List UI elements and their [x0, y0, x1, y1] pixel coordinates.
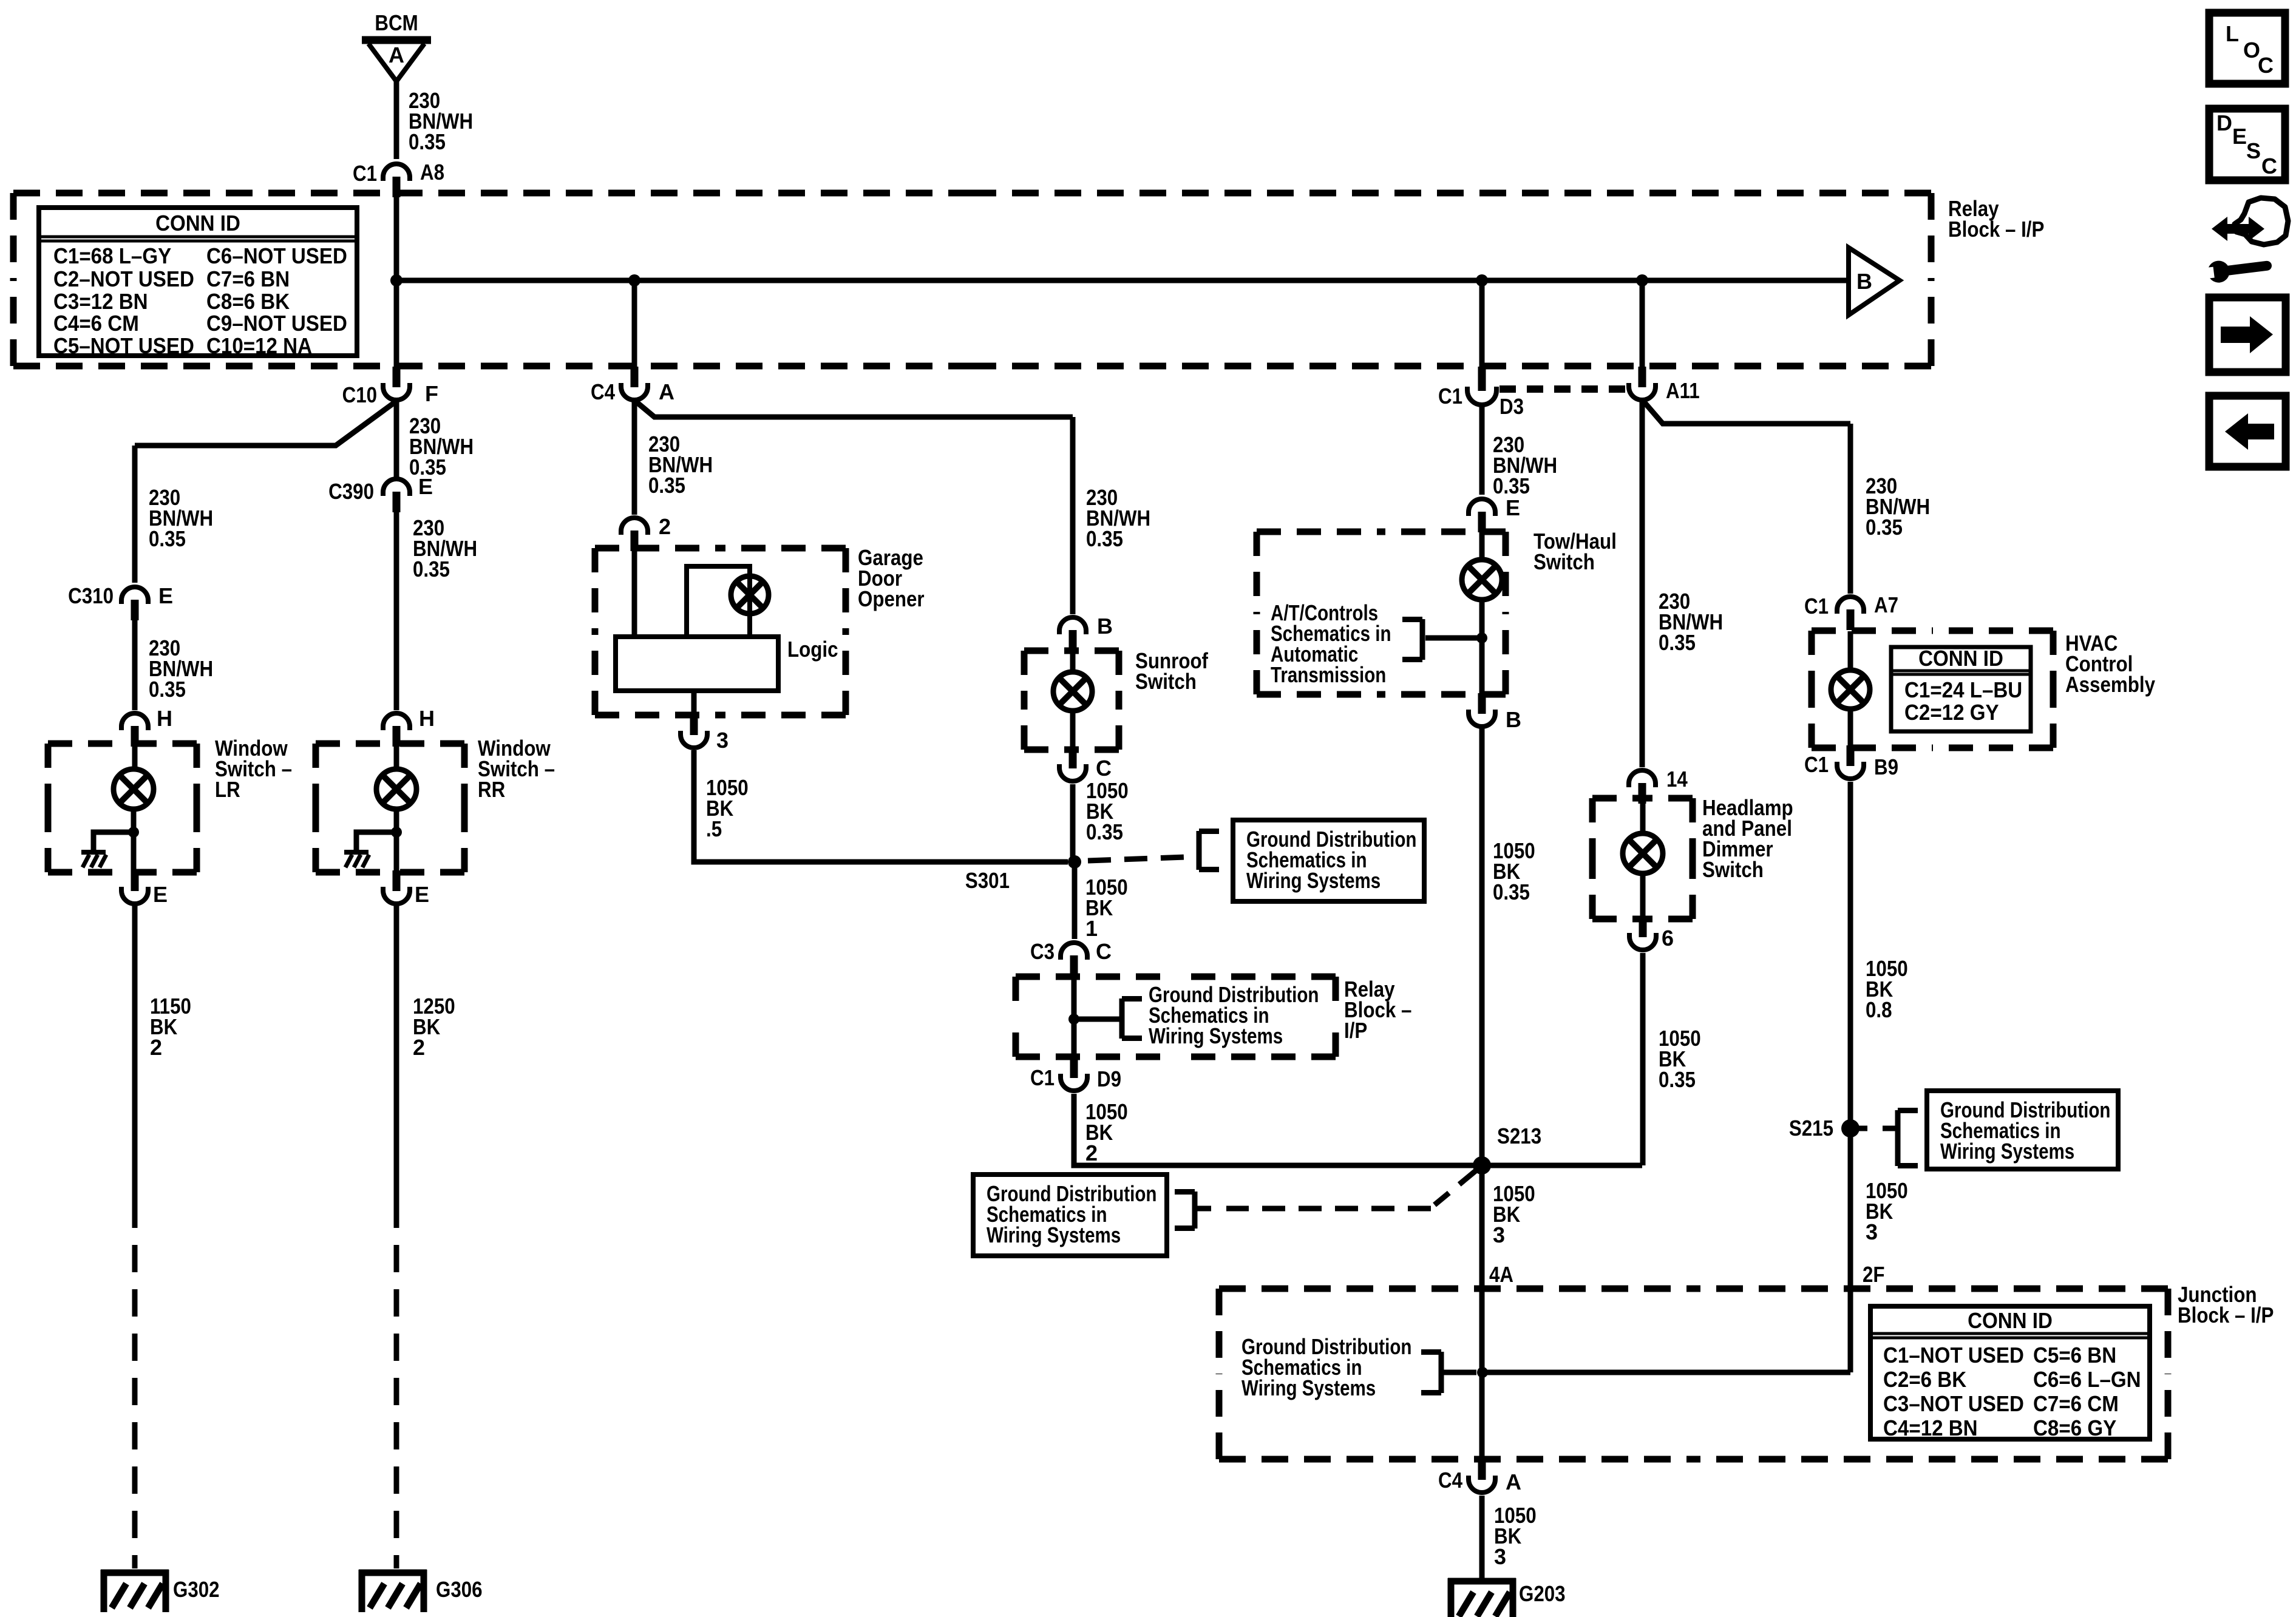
svg-text:.5: .5: [706, 816, 722, 841]
connector C1 D3: [1467, 367, 1496, 405]
svg-text:C7=6 CM: C7=6 CM: [2033, 1391, 2119, 1416]
bracket stub (S213 callout): [1195, 1206, 1211, 1212]
svg-text:C5–NOT USED: C5–NOT USED: [53, 333, 194, 358]
wire into LR bulb: [132, 744, 138, 770]
svg-text:C: C: [2258, 53, 2274, 78]
splice S301: [1068, 855, 1081, 869]
svg-text:0.35: 0.35: [1659, 1067, 1696, 1092]
svg-text:E: E: [418, 474, 433, 499]
indicator bulb (sunroof switch): [1053, 672, 1092, 711]
svg-text:C3=12 BN: C3=12 BN: [53, 289, 148, 314]
wire bus to A11: [1640, 280, 1645, 369]
svg-text:Wiring Systems: Wiring Systems: [1149, 1023, 1283, 1048]
svg-text:S215: S215: [1789, 1116, 1833, 1141]
ground stub wire (RR): [356, 832, 396, 850]
wire label 230 BN/WH 0.35 (C390): [413, 515, 477, 581]
svg-text:C8=6 GY: C8=6 GY: [2033, 1415, 2116, 1440]
bracket at S301 callout: [1199, 831, 1219, 870]
svg-text:C: C: [1096, 939, 1112, 964]
connector pin 2 (garage door opener): [621, 518, 648, 551]
svg-text:S301: S301: [965, 868, 1010, 893]
wire label 230 BN/WH 0.35 (garage): [648, 432, 713, 498]
wire S213 to headlamp column: [1482, 1163, 1642, 1168]
connector C1 D9: [1061, 1057, 1087, 1091]
junction in RR switch: [391, 827, 402, 838]
wire C1 A8 into bus: [394, 193, 399, 280]
wire sunroof bulb to box edge: [1070, 711, 1076, 749]
wire label 230 BN/WH 0.35 (col1 lower): [149, 636, 213, 702]
connector C4 A: [621, 367, 648, 400]
wire down to sunroof switch: [1070, 417, 1076, 614]
svg-text:C10=12 NA: C10=12 NA: [206, 333, 312, 358]
chassis ground (window switch LR): [81, 852, 106, 867]
svg-text:C2–NOT USED: C2–NOT USED: [53, 266, 194, 291]
label Garage Door Opener: [858, 545, 925, 611]
svg-text:3: 3: [1493, 1222, 1505, 1247]
svg-text:C1=24 L–BU: C1=24 L–BU: [1904, 677, 2022, 702]
wire label 1050 BK 3 (2F): [1866, 1178, 1908, 1244]
wire label 1050 BK .5: [706, 775, 749, 841]
text A/T/Controls Schematics: [1271, 600, 1391, 687]
window switch RR dashed outline: [316, 744, 464, 872]
dashed wire LR to G302: [132, 1201, 138, 1568]
svg-text:CONN ID: CONN ID: [155, 211, 240, 236]
wire col1 down to C310: [132, 446, 138, 583]
svg-text:CONN ID: CONN ID: [1918, 646, 2003, 671]
svg-text:0.35: 0.35: [648, 473, 685, 498]
svg-text:C5=6 BN: C5=6 BN: [2033, 1343, 2116, 1368]
svg-text:2: 2: [413, 1035, 425, 1060]
svg-text:C3: C3: [1030, 939, 1055, 964]
wire B to S213: [1479, 728, 1485, 1165]
wire LR bulb to ground junction: [131, 808, 137, 872]
window switch LR dashed outline: [48, 744, 197, 872]
wire logic box to pin 3: [691, 691, 697, 716]
svg-text:3: 3: [1494, 1544, 1506, 1569]
icon forward arrow: [2209, 297, 2286, 372]
indicator bulb (window switch LR): [114, 769, 154, 809]
wire pin 3 to S301: [694, 750, 1068, 862]
svg-text:C8=6 BK: C8=6 BK: [206, 289, 290, 314]
svg-text:C4: C4: [1438, 1468, 1462, 1493]
wire into dimmer bulb: [1640, 799, 1646, 835]
wire S301 down to C3 C: [1072, 862, 1078, 939]
svg-text:B9: B9: [1874, 754, 1898, 779]
connector B (sunroof): [1059, 617, 1086, 651]
stub S215 to bracket: [1858, 1126, 1897, 1131]
svg-text:0.35: 0.35: [149, 526, 186, 551]
svg-text:F: F: [425, 381, 438, 406]
wire 6 to S213: [1640, 953, 1646, 1165]
wire into tow bulb: [1479, 532, 1485, 561]
connector A11: [1629, 367, 1656, 400]
svg-text:Switch: Switch: [1533, 549, 1595, 574]
svg-text:Assembly: Assembly: [2065, 672, 2155, 697]
svg-text:0.35: 0.35: [409, 129, 446, 154]
svg-text:0.35: 0.35: [1086, 819, 1123, 844]
svg-text:H: H: [419, 706, 435, 731]
svg-text:S213: S213: [1497, 1124, 1541, 1148]
svg-text:A7: A7: [1874, 592, 1898, 617]
svg-text:C2=6 BK: C2=6 BK: [1883, 1367, 1966, 1392]
label Relay Block - I/P (lower): [1344, 977, 1411, 1043]
off-page arrow B: [1849, 248, 1900, 315]
connector C10 F: [383, 367, 410, 400]
indicator bulb (dimmer switch): [1623, 833, 1663, 873]
svg-text:E: E: [158, 583, 173, 608]
CONN ID table (relay block): [39, 208, 357, 358]
svg-text:D: D: [2216, 110, 2232, 135]
svg-text:C1: C1: [1030, 1065, 1055, 1090]
svg-text:C1: C1: [1804, 594, 1829, 619]
svg-text:2: 2: [1085, 1141, 1098, 1165]
wire A11 split diagonal to HVAC column: [1644, 402, 1850, 424]
svg-text:G306: G306: [436, 1577, 483, 1602]
svg-text:14: 14: [1666, 767, 1688, 792]
wire C390 to window switch RR: [394, 512, 399, 710]
dashed wire RR to G306: [394, 1201, 399, 1568]
connector E (LR bottom): [121, 870, 148, 904]
wire label 1050 BK 0.35 (dimmer): [1659, 1026, 1701, 1092]
text Ground Distribution (junction block): [1241, 1334, 1411, 1400]
svg-text:D9: D9: [1097, 1066, 1121, 1091]
wire C to S301: [1070, 784, 1076, 862]
wire label 1250 BK 2: [413, 994, 455, 1060]
svg-text:0.35: 0.35: [1659, 630, 1696, 655]
svg-text:Block – I/P: Block – I/P: [2178, 1303, 2274, 1327]
link to bracket (relay lower): [1074, 1017, 1119, 1022]
junction in tow/haul switch: [1476, 632, 1487, 643]
svg-text:Wiring Systems: Wiring Systems: [1246, 868, 1381, 893]
label Relay Block - I/P: [1948, 196, 2044, 242]
svg-text:A: A: [659, 379, 674, 404]
svg-text:G302: G302: [173, 1577, 220, 1602]
splice S213: [1473, 1156, 1491, 1175]
bracket at S213 callout: [1175, 1192, 1195, 1229]
svg-text:1: 1: [1085, 916, 1098, 941]
indicator bulb (tow/haul switch): [1462, 560, 1502, 600]
junction on bus at col2: [390, 274, 402, 286]
ground stub wire (LR): [93, 832, 134, 850]
junction block I/P dashed outline: [1219, 1289, 2168, 1459]
svg-text:C390: C390: [328, 479, 374, 504]
ground G306: [359, 1570, 427, 1612]
link tow junction to bracket: [1425, 636, 1478, 641]
svg-text:BCM: BCM: [375, 10, 418, 35]
svg-text:E: E: [2232, 124, 2247, 149]
wire label 1050 BK 1: [1085, 875, 1128, 941]
wire label 1050 BK 0.8: [1866, 956, 1908, 1022]
svg-text:Wiring Systems: Wiring Systems: [1241, 1375, 1376, 1400]
wire D3 to E: [1479, 407, 1485, 495]
text Ground Distribution (relay lower): [1149, 982, 1319, 1048]
wire label 230 BN/WH 0.35 (C10 F): [409, 413, 474, 480]
wire into RR bulb: [394, 744, 399, 770]
chassis ground (window switch RR): [344, 852, 369, 867]
svg-text:Opener: Opener: [858, 586, 925, 611]
svg-text:RR: RR: [478, 777, 505, 802]
connector C3 C: [1061, 943, 1087, 976]
junction on bus at col4: [1476, 274, 1488, 286]
dashed link S301 to callout: [1088, 857, 1197, 861]
svg-text:Block – I/P: Block – I/P: [1948, 217, 2044, 242]
svg-text:Switch: Switch: [1702, 857, 1764, 882]
callout Ground Distribution (S215): [1927, 1091, 2118, 1169]
svg-text:LR: LR: [215, 777, 240, 802]
CONN ID table (junction block): [1870, 1306, 2150, 1440]
svg-text:0.35: 0.35: [1493, 473, 1530, 498]
label Sunroof Switch: [1135, 648, 1209, 694]
connector H (window switch RR): [383, 713, 410, 747]
tow/haul switch dashed outline: [1257, 532, 1506, 694]
svg-text:Switch: Switch: [1135, 669, 1197, 694]
bracket in tow/haul switch: [1402, 619, 1422, 660]
wire into HVAC bulb: [1848, 631, 1853, 671]
BCM off-page triangle A: [362, 40, 431, 81]
svg-text:G203: G203: [1519, 1581, 1566, 1606]
connector E (RR bottom): [383, 870, 410, 904]
connector E (tow/haul): [1469, 499, 1495, 532]
svg-text:S: S: [2246, 138, 2261, 163]
svg-text:L: L: [2226, 21, 2239, 46]
svg-text:I/P: I/P: [1344, 1018, 1367, 1043]
wire LR to splice: [132, 906, 138, 1201]
wire RR to splice: [394, 906, 399, 1201]
svg-text:2F: 2F: [1863, 1262, 1885, 1287]
svg-text:E: E: [153, 882, 168, 907]
svg-text:B: B: [1097, 614, 1113, 639]
svg-text:0.35: 0.35: [1866, 515, 1903, 540]
svg-text:C3–NOT USED: C3–NOT USED: [1883, 1391, 2024, 1416]
wire label 230 BN/WH 0.35 (BCM): [409, 88, 473, 154]
svg-text:CONN ID: CONN ID: [1968, 1308, 2053, 1333]
connector B (tow/haul): [1469, 693, 1495, 727]
svg-text:E: E: [1506, 495, 1520, 520]
wire label 230 BN/WH 0.35 (tow): [1493, 432, 1557, 498]
wire bus to C4 A: [632, 280, 637, 369]
connector H (window switch LR): [121, 713, 148, 747]
bracket in junction block: [1421, 1352, 1441, 1393]
wire bus to C10 F: [394, 280, 399, 368]
headlamp dimmer switch dashed outline: [1592, 798, 1693, 919]
wire tow bulb to B: [1479, 599, 1485, 694]
connector 14 (dimmer switch): [1629, 770, 1656, 804]
CONN ID table (HVAC): [1891, 646, 2031, 731]
svg-text:6: 6: [1662, 926, 1674, 951]
relay block I/P lower dashed outline: [1016, 977, 1336, 1057]
svg-text:4A: 4A: [1489, 1262, 1513, 1287]
connector C1 A7: [1837, 597, 1864, 630]
wire D9 to S213: [1074, 1094, 1474, 1165]
svg-text:3: 3: [716, 728, 729, 753]
sunroof switch dashed outline: [1024, 651, 1119, 750]
svg-text:2: 2: [150, 1035, 162, 1060]
svg-text:A: A: [389, 42, 404, 67]
wire label 230 BN/WH 0.35 (sunroof): [1086, 485, 1150, 551]
svg-text:0.8: 0.8: [1866, 997, 1892, 1022]
ground G302: [101, 1570, 169, 1612]
wire label 230 BN/WH 0.35 (dimmer): [1659, 589, 1723, 655]
wire dimmer bulb to 6: [1640, 873, 1646, 918]
wire S213 down to junction block: [1479, 1165, 1485, 1459]
svg-text:C4=12 BN: C4=12 BN: [1883, 1415, 1978, 1440]
junction in LR switch: [128, 827, 139, 838]
wire S215 down to junction block: [1848, 1128, 1853, 1372]
svg-text:C4=6 CM: C4=6 CM: [53, 311, 139, 336]
connector 6 (dimmer switch): [1629, 917, 1656, 950]
svg-text:2: 2: [659, 514, 671, 539]
svg-text:Wiring Systems: Wiring Systems: [987, 1222, 1121, 1247]
wire RR bulb to ground junction: [394, 808, 399, 872]
svg-text:C9–NOT USED: C9–NOT USED: [206, 311, 347, 336]
dashed link S213 to callout: [1226, 1170, 1477, 1209]
wire 2F leg to 4A leg: [1483, 1370, 1850, 1375]
svg-text:C310: C310: [68, 583, 114, 608]
label Tow/Haul Switch: [1533, 529, 1617, 574]
wire C4 A down to pin 2: [632, 402, 637, 515]
svg-text:C4: C4: [591, 379, 615, 404]
svg-text:B: B: [1506, 707, 1521, 732]
svg-text:C1: C1: [353, 161, 377, 186]
wire C10 F split diagonal to col1: [135, 402, 395, 446]
indicator bulb (HVAC): [1831, 670, 1870, 709]
icon DESC: [2209, 109, 2285, 180]
svg-text:3: 3: [1866, 1219, 1878, 1244]
connector C (sunroof): [1059, 748, 1086, 781]
connector C1 A8: [383, 164, 410, 197]
garage internal rect: [687, 566, 750, 637]
wire label 230 BN/WH 0.35 (HVAC): [1866, 473, 1930, 540]
svg-text:C6=6 L–GN: C6=6 L–GN: [2033, 1367, 2141, 1392]
wire label 1050 BK 2 (D9): [1085, 1099, 1128, 1165]
icon hand with arrow and wrench: [2198, 198, 2288, 285]
label Junction Block - I/P: [2178, 1282, 2274, 1327]
svg-text:C6–NOT USED: C6–NOT USED: [206, 243, 347, 268]
wire label 1050 BK 0.35 (tow): [1493, 838, 1535, 904]
callout Ground Distribution (S213): [973, 1175, 1167, 1256]
wire label 1050 BK 0.35 (sunroof): [1086, 778, 1129, 844]
svg-text:0.35: 0.35: [413, 557, 450, 581]
label Window Switch - RR: [478, 736, 555, 802]
wire label 1150 BK 2: [150, 994, 191, 1060]
wire through relay block lower: [1072, 976, 1077, 1057]
svg-text:0.35: 0.35: [1493, 880, 1530, 904]
wire bus to C1 D3: [1479, 280, 1485, 371]
ground G203: [1448, 1578, 1516, 1617]
svg-text:Logic: Logic: [787, 637, 838, 662]
svg-text:C: C: [2261, 154, 2277, 178]
svg-text:A: A: [1506, 1470, 1521, 1494]
svg-text:C1–NOT USED: C1–NOT USED: [1883, 1343, 2024, 1368]
bus wire inside relay block: [396, 278, 1849, 283]
logic box: [616, 637, 778, 691]
connector C4 A (G203): [1469, 1459, 1495, 1493]
svg-text:C10: C10: [342, 382, 377, 407]
callout Ground Distribution (S301): [1233, 820, 1424, 901]
wire into sunroof bulb: [1070, 651, 1076, 673]
wire A11 down to 14: [1640, 402, 1645, 767]
svg-text:A11: A11: [1666, 378, 1700, 403]
wire label 1050 BK 3 (G203): [1494, 1503, 1537, 1569]
icon back arrow: [2209, 396, 2286, 467]
wire C4 A to G203: [1479, 1496, 1485, 1578]
relay block I/P dashed outline: [13, 193, 1931, 366]
label Headlamp and Panel Dimmer Switch: [1702, 795, 1793, 882]
indicator bulb (garage door opener): [731, 576, 769, 614]
svg-text:Wiring Systems: Wiring Systems: [1940, 1139, 2074, 1164]
svg-text:Transmission: Transmission: [1271, 662, 1386, 687]
wire label 1050 BK 3 (S213): [1493, 1181, 1535, 1247]
connector C1 B9: [1837, 745, 1864, 779]
svg-text:C7=6 BN: C7=6 BN: [206, 266, 290, 291]
label Window Switch - LR: [215, 736, 292, 802]
connector C310 E: [121, 587, 148, 620]
wire B9 to S215: [1848, 782, 1853, 1124]
svg-text:A8: A8: [420, 160, 444, 185]
indicator bulb (window switch RR): [376, 769, 416, 809]
svg-text:0.35: 0.35: [1086, 526, 1123, 551]
junction in junction block: [1477, 1367, 1488, 1378]
svg-text:B: B: [1856, 269, 1872, 294]
svg-text:0.35: 0.35: [149, 677, 186, 702]
wire C4 A split diagonal to sunroof column: [636, 402, 1073, 417]
svg-text:C2=12 GY: C2=12 GY: [1904, 700, 1999, 725]
svg-text:C: C: [1096, 756, 1112, 781]
svg-text:H: H: [157, 706, 172, 731]
svg-text:C1: C1: [1438, 384, 1462, 408]
splice S215: [1841, 1119, 1860, 1137]
wire label 230 BN/WH 0.35 (col1 upper): [149, 485, 213, 551]
junction on bus at col3: [628, 274, 640, 286]
label HVAC Control Assembly: [2065, 631, 2155, 697]
svg-text:D3: D3: [1500, 394, 1524, 419]
link bracket to junction wire: [1441, 1370, 1476, 1375]
wire col2 down to C390: [394, 401, 399, 477]
svg-text:C1: C1: [1804, 752, 1829, 777]
connector C390 E: [383, 479, 410, 512]
HVAC control assembly dashed outline: [1812, 631, 2053, 748]
junction on bus at col5: [1636, 274, 1648, 286]
svg-text:C1=68 L–GY: C1=68 L–GY: [53, 243, 171, 268]
wire HVAC bulb to box edge: [1848, 709, 1853, 747]
dotted link D3 to A11: [1500, 385, 1632, 393]
wire BCM to C1 A8: [394, 81, 399, 159]
icon LOC: [2209, 13, 2285, 84]
svg-text:E: E: [415, 882, 429, 907]
junction in relay block lower: [1068, 1014, 1079, 1025]
wire C310 to window switch LR: [132, 620, 138, 710]
connector pin 3 (garage door opener): [681, 714, 707, 748]
bracket in relay block lower: [1122, 998, 1142, 1039]
garage door opener dashed outline: [595, 548, 846, 715]
bracket at S215 callout: [1898, 1110, 1918, 1166]
wire down to HVAC: [1848, 424, 1853, 594]
wire pin 2 to logic box: [632, 549, 637, 637]
